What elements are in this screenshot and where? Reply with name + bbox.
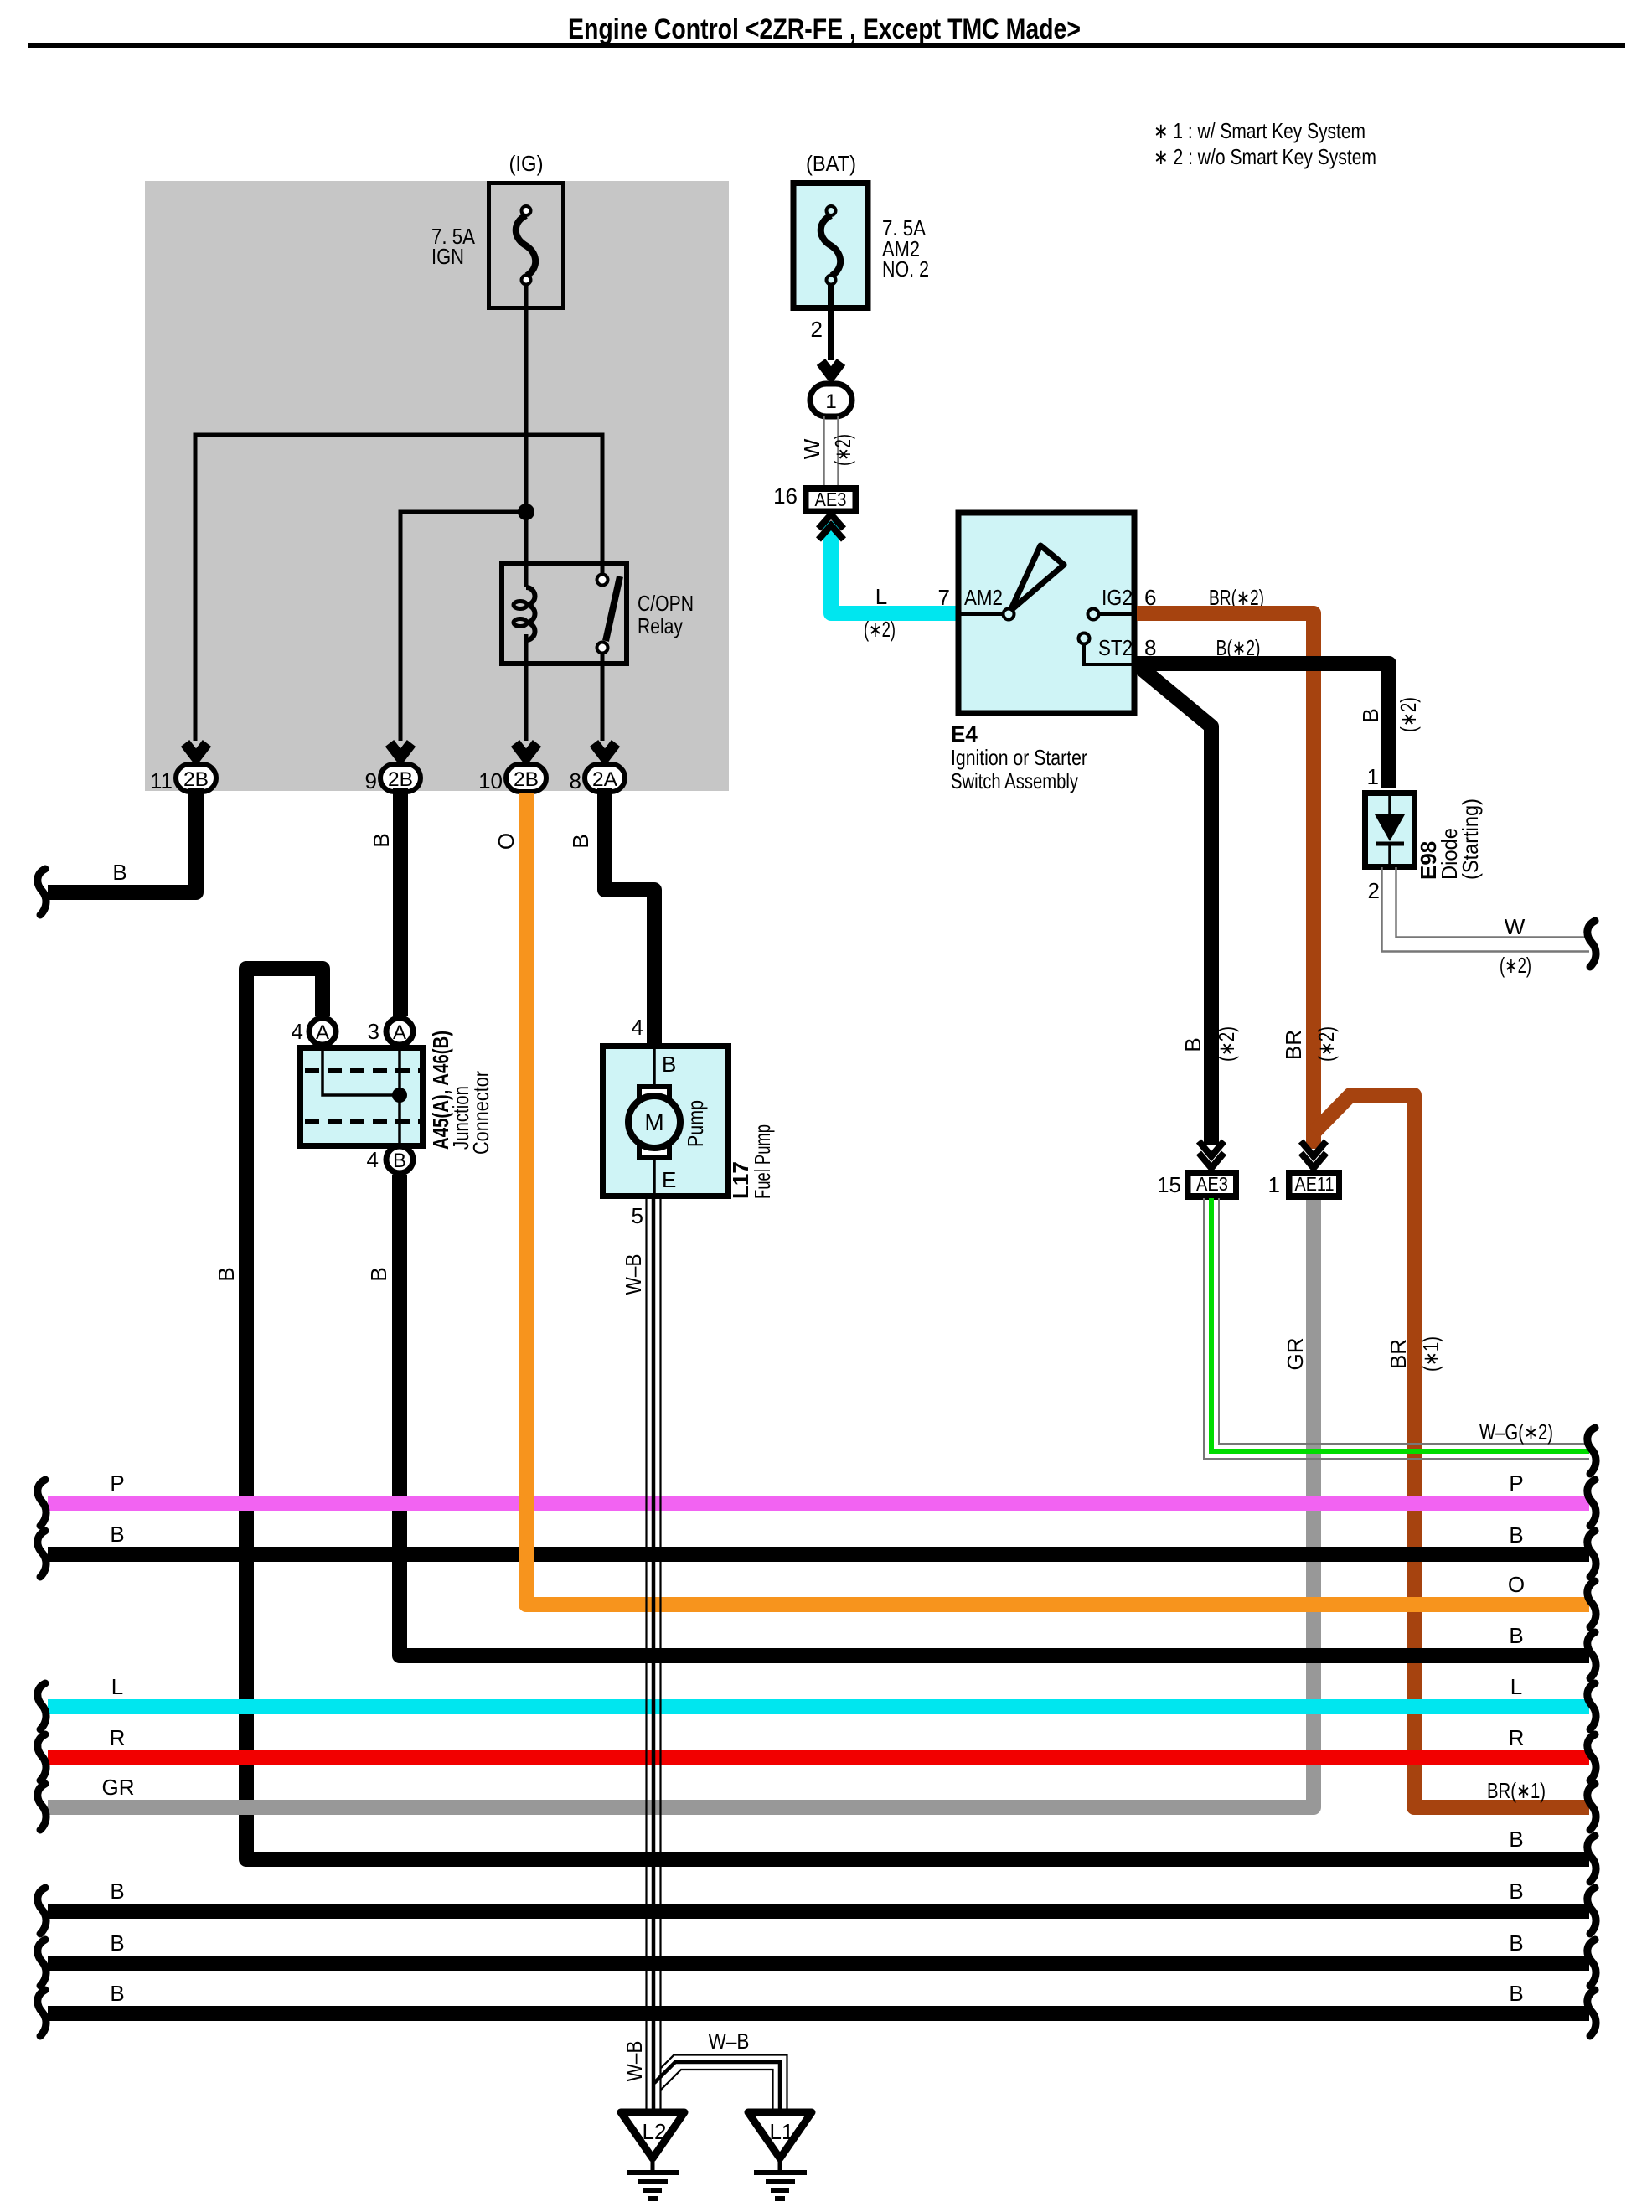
- connector 2A pin 8: [570, 764, 625, 793]
- svg-text:R: R: [1509, 1725, 1525, 1750]
- wire B from junction B4 to bus: [400, 1175, 1589, 1656]
- svg-text:AE3: AE3: [1196, 1173, 1228, 1195]
- svg-text:4: 4: [292, 1019, 303, 1044]
- wire break left 2157: [38, 1784, 46, 1830]
- wire break left B 2403: [38, 1990, 46, 2036]
- wire break right B 2343: [1587, 1940, 1596, 1986]
- svg-text:Fuel Pump: Fuel Pump: [750, 1124, 775, 1199]
- svg-text:(∗2): (∗2): [1500, 953, 1531, 978]
- svg-text:W: W: [1505, 914, 1526, 939]
- svg-text:BR: BR: [1281, 1030, 1306, 1060]
- wire 2B(9) to junction dot: [400, 512, 526, 741]
- wire break left R 2098: [38, 1734, 46, 1780]
- svg-text:1: 1: [1367, 764, 1379, 789]
- wire GR from AE11 to bus: [48, 1198, 1314, 1807]
- wire W from connector 1 to AE3: [824, 416, 839, 485]
- wire break right B 2403: [1587, 1990, 1596, 2036]
- bus wire L: [48, 1699, 1589, 1714]
- svg-text:Pump: Pump: [683, 1100, 708, 1147]
- wire break left L 2037: [38, 1683, 46, 1729]
- svg-text:P: P: [110, 1470, 124, 1496]
- svg-text:B: B: [568, 834, 593, 848]
- title rule: [28, 43, 1625, 48]
- svg-text:3: 3: [368, 1019, 379, 1044]
- svg-text:B: B: [393, 1150, 406, 1172]
- wire B(*2) from ST2 to diode: [1137, 664, 1389, 788]
- wire W from diode pin2: [1382, 867, 1590, 952]
- svg-text:B: B: [1509, 1981, 1523, 2006]
- svg-text:15: 15: [1157, 1172, 1181, 1197]
- svg-text:L: L: [111, 1674, 123, 1699]
- wire break right BR 2157: [1587, 1784, 1596, 1830]
- svg-text:2B: 2B: [183, 768, 209, 791]
- wire B from 2A(8) to fuel pump: [605, 788, 654, 1043]
- svg-text:(Starting): (Starting): [1458, 798, 1483, 880]
- ignition switch E4: [938, 513, 1157, 793]
- relay C/OPN: [502, 564, 694, 664]
- fuse AM2 NO.2 (BAT): [793, 151, 929, 308]
- wire break right R 2098: [1587, 1734, 1596, 1780]
- svg-text:L: L: [1510, 1674, 1522, 1699]
- wire W-B from fuel pump to ground L2: [647, 1199, 661, 2111]
- wire break right L 2037: [1587, 1683, 1596, 1729]
- connector AE3 pin 15: [1157, 1172, 1236, 1197]
- svg-text:2B: 2B: [514, 768, 539, 791]
- svg-text:(∗1): (∗1): [1418, 1336, 1443, 1372]
- wire B feeder from 2B(11) to break: [48, 788, 196, 892]
- svg-text:∗ 2 : w/o Smart Key System: ∗ 2 : w/o Smart Key System: [1154, 144, 1376, 169]
- relay block gray panel: [145, 181, 729, 791]
- svg-text:E: E: [662, 1167, 676, 1192]
- bus wire P: [48, 1496, 1589, 1511]
- arrow into connector 1: [821, 362, 841, 375]
- svg-text:IGN: IGN: [431, 244, 464, 269]
- svg-text:W–B: W–B: [622, 2041, 647, 2082]
- wire break left B 1855: [38, 1531, 46, 1577]
- svg-text:B: B: [1358, 708, 1383, 722]
- svg-text:B: B: [1509, 1522, 1523, 1548]
- bus wire B1: [48, 1547, 1589, 1562]
- wire break right P 1794: [1587, 1480, 1596, 1526]
- svg-text:Relay: Relay: [638, 613, 683, 638]
- svg-text:NO. 2: NO. 2: [882, 256, 929, 282]
- arrow into 2B(11): [185, 743, 207, 757]
- wire O from 2B(10) to bus: [526, 793, 1589, 1605]
- svg-text:GR: GR: [102, 1775, 135, 1800]
- junction dot: [518, 504, 534, 520]
- wire relay switch bottom to 2A(8): [601, 654, 605, 741]
- terminal A pin 4: [309, 1018, 336, 1045]
- arrow into 2B(10): [515, 743, 537, 757]
- svg-text:B: B: [1509, 1930, 1523, 1956]
- wire break right B 2219: [1587, 1836, 1596, 1882]
- svg-text:(∗2): (∗2): [830, 434, 855, 466]
- svg-text:4: 4: [632, 1015, 643, 1040]
- arrow into AE3-15: [1199, 1141, 1224, 1156]
- svg-text:(∗2): (∗2): [864, 617, 896, 642]
- svg-text:ST2: ST2: [1098, 635, 1133, 660]
- wire W-B branch to ground L1: [654, 2055, 787, 2111]
- wire break left B 2343: [38, 1940, 46, 1986]
- svg-text:Switch Assembly: Switch Assembly: [951, 768, 1078, 793]
- svg-text:B: B: [662, 1052, 676, 1077]
- svg-text:(∗2): (∗2): [1314, 1026, 1339, 1062]
- svg-text:8: 8: [570, 768, 581, 793]
- motor brushes: [639, 1087, 669, 1098]
- wire IG fuse to junction dot to coil: [524, 285, 529, 587]
- pin ST2: [1084, 644, 1134, 664]
- wire 2B(11) to relay switch top horizontal: [195, 435, 602, 741]
- junction connector A45/A46: [292, 1018, 493, 1173]
- svg-text:B: B: [110, 1879, 124, 1904]
- svg-text:2B: 2B: [388, 768, 413, 791]
- svg-text:B: B: [1509, 1827, 1523, 1852]
- svg-text:1: 1: [825, 390, 836, 413]
- svg-text:W–B: W–B: [709, 2029, 750, 2054]
- connector AE3 pin 16: [773, 483, 856, 512]
- svg-text:(∗2): (∗2): [1396, 697, 1421, 732]
- svg-text:2: 2: [811, 317, 823, 342]
- svg-text:AE3: AE3: [815, 488, 847, 510]
- svg-text:B: B: [112, 860, 126, 885]
- svg-text:16: 16: [773, 483, 798, 509]
- svg-text:B: B: [1180, 1037, 1205, 1052]
- wire break right O 1915: [1587, 1581, 1596, 1627]
- bus wire R: [48, 1750, 1589, 1765]
- terminal B pin 4: [386, 1146, 413, 1173]
- svg-text:B: B: [1509, 1879, 1523, 1904]
- svg-text:A: A: [316, 1021, 329, 1044]
- svg-text:L2: L2: [643, 2119, 667, 2144]
- svg-text:(IG): (IG): [509, 151, 544, 176]
- wire L from AM2 to AE3-16: [831, 521, 956, 613]
- fuel pump L17: [603, 1015, 776, 1228]
- svg-text:7: 7: [938, 585, 950, 610]
- svg-text:O: O: [493, 833, 519, 850]
- svg-text:E4: E4: [951, 721, 978, 747]
- svg-text:W–G(∗2): W–G(∗2): [1479, 1419, 1553, 1445]
- svg-text:BR(∗1): BR(∗1): [1487, 1778, 1546, 1803]
- svg-text:Engine Control <2ZR-FE , Excep: Engine Control <2ZR-FE , Except TMC Made…: [568, 13, 1081, 45]
- svg-text:B: B: [110, 1981, 124, 2006]
- svg-text:∗ 1 : w/ Smart Key System: ∗ 1 : w/ Smart Key System: [1154, 118, 1365, 143]
- svg-text:BR: BR: [1386, 1339, 1411, 1369]
- svg-text:B: B: [110, 1522, 124, 1547]
- svg-text:(∗2): (∗2): [1214, 1026, 1239, 1062]
- arrow into 2A(8): [594, 743, 616, 757]
- svg-text:W–B: W–B: [621, 1254, 646, 1295]
- pin AM2: [958, 612, 1002, 616]
- svg-text:L: L: [875, 584, 887, 609]
- svg-text:B: B: [110, 1930, 124, 1956]
- terminal A pin 3: [386, 1018, 413, 1045]
- svg-text:B: B: [369, 833, 394, 847]
- relay switch: [597, 575, 608, 586]
- svg-text:11: 11: [150, 768, 173, 793]
- svg-text:AE11: AE11: [1295, 1173, 1335, 1195]
- wire B junction A4 loop to bus: [246, 969, 1589, 1859]
- svg-text:M: M: [644, 1109, 663, 1135]
- wire break right B 2281: [1587, 1888, 1596, 1934]
- wire B to AE3-15: [1138, 666, 1211, 1145]
- connector 2B pin 10: [478, 764, 546, 793]
- svg-text:9: 9: [365, 768, 377, 793]
- svg-text:B: B: [366, 1267, 391, 1281]
- ground L1: [748, 2112, 812, 2199]
- svg-text:W: W: [799, 438, 824, 459]
- arrow into 2B(9): [390, 743, 411, 757]
- wire break right B 1855: [1587, 1531, 1596, 1577]
- svg-text:2: 2: [1368, 878, 1380, 903]
- svg-text:1: 1: [1268, 1172, 1280, 1197]
- diode E98: [1365, 764, 1484, 903]
- svg-text:Ignition or Starter: Ignition or Starter: [951, 745, 1087, 770]
- fuse IGN (IG): [431, 151, 564, 308]
- motor M: [628, 1096, 680, 1148]
- bus wire B2343: [48, 1956, 1589, 1971]
- ground L2: [621, 2112, 684, 2199]
- wire BR(*1) branch to bus: [1314, 1095, 1589, 1807]
- svg-text:R: R: [110, 1725, 126, 1750]
- wire break right B 1976: [1587, 1632, 1596, 1678]
- svg-text:IG2: IG2: [1102, 585, 1133, 610]
- wire BAT fuse down: [828, 285, 834, 360]
- svg-text:Connector: Connector: [468, 1071, 493, 1155]
- svg-text:2A: 2A: [592, 768, 617, 791]
- wire B from 2B(9) to junction A3: [393, 788, 408, 1016]
- wire W-G from AE3-15: [1204, 1198, 1589, 1459]
- svg-text:10: 10: [478, 768, 503, 793]
- wire break right 1127: [1587, 921, 1596, 967]
- connector 2B pin 11: [150, 764, 216, 793]
- wire break left 1065: [38, 869, 46, 915]
- wire break left P 1794: [38, 1480, 46, 1526]
- relay coil: [526, 587, 535, 640]
- connector AE11 pin 1: [1268, 1172, 1340, 1197]
- svg-text:AM2: AM2: [964, 585, 1003, 610]
- svg-text:C/OPN: C/OPN: [638, 591, 694, 616]
- bus wire B2281: [48, 1904, 1589, 1919]
- connector 2B pin 9: [365, 764, 421, 793]
- svg-text:L1: L1: [770, 2119, 794, 2144]
- pin IG2: [1099, 612, 1134, 616]
- svg-text:(BAT): (BAT): [806, 151, 856, 176]
- bus wire B2403: [48, 2006, 1589, 2021]
- svg-text:GR: GR: [1283, 1338, 1308, 1371]
- wire break left B 2281: [38, 1888, 46, 1934]
- svg-text:P: P: [1509, 1470, 1523, 1496]
- svg-text:B: B: [214, 1267, 239, 1281]
- arrow into AE11-1: [1301, 1141, 1326, 1156]
- arrow up into AE3-16: [818, 514, 844, 529]
- svg-text:O: O: [1508, 1572, 1525, 1597]
- switch lever: [1010, 545, 1064, 611]
- wire break right W-G 1732: [1587, 1428, 1596, 1474]
- svg-text:B: B: [1509, 1623, 1523, 1648]
- svg-text:A: A: [393, 1021, 406, 1044]
- connector 1 oval: [810, 384, 852, 416]
- wire BR from IG2 to AE11: [1137, 613, 1314, 1149]
- svg-text:5: 5: [632, 1203, 643, 1228]
- svg-text:4: 4: [367, 1147, 379, 1172]
